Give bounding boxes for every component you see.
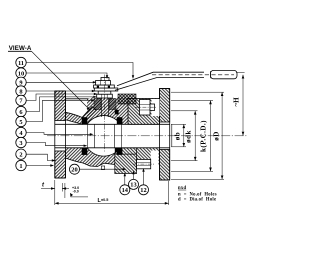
svg-text:d = Dia.of Hole: d = Dia.of Hole	[178, 198, 216, 203]
svg-text:12: 12	[140, 187, 146, 194]
svg-text:10: 10	[18, 70, 24, 77]
svg-text:20: 20	[71, 167, 77, 174]
svg-text:øD: øD	[212, 131, 220, 141]
svg-text:-0.0: -0.0	[73, 189, 79, 193]
svg-text:3: 3	[19, 140, 22, 147]
svg-text:~H: ~H	[233, 97, 241, 107]
svg-text:ødk: ødk	[184, 130, 192, 143]
svg-text:5: 5	[19, 119, 22, 126]
svg-text:øb: øb	[173, 132, 181, 140]
svg-text:11: 11	[18, 60, 24, 67]
svg-text:8: 8	[19, 88, 22, 95]
svg-text:n = No.of Holes: n = No.of Holes	[178, 192, 217, 197]
svg-text:2: 2	[19, 152, 22, 159]
svg-text:14: 14	[122, 187, 129, 194]
svg-text:±0.5: ±0.5	[101, 198, 108, 202]
svg-text:VIEW-A: VIEW-A	[9, 45, 32, 52]
svg-text:1: 1	[19, 163, 22, 170]
svg-text:13: 13	[130, 182, 136, 189]
svg-text:9: 9	[19, 80, 22, 87]
svg-text:k(P.C.D.): k(P.C.D.)	[199, 120, 207, 152]
